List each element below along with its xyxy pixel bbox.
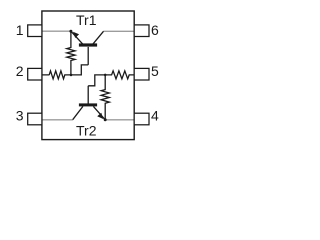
pin 5 box [134,68,149,80]
node A junction dot [69,30,72,33]
svg-text:3: 3 [16,108,24,124]
package outline [42,11,134,140]
transistor Tr1 base lead [87,47,89,65]
svg-text:2: 2 [16,63,24,79]
junction dot R3/R4 [104,74,107,77]
svg-text:Tr2: Tr2 [76,122,97,138]
pin 1 box [28,25,42,37]
wire pin1 to node A [42,30,71,32]
svg-text:5: 5 [151,63,159,79]
pin 6 box [134,25,149,37]
pin 3 box [28,113,42,125]
resistor R4 (node A2 up to mid wire) [101,75,109,120]
wire pin3 to collector Tr2 [42,119,73,121]
transistor Tr2 base lead [87,86,89,104]
transistor Tr2 base bar [79,103,97,106]
svg-text:1: 1 [16,22,24,38]
transistor Tr1 collector [93,31,104,44]
junction dot R1/R2 [70,74,73,77]
resistor R3 (pin5 to base Tr2, with step) [88,71,134,86]
resistor R1 (pin2 to base Tr1, with step) [42,65,88,79]
pin 4 box [134,113,149,125]
transistor Tr1 emitter arrow [73,32,79,38]
transistor Tr2 emitter [93,106,105,119]
resistor R2 (node A down to mid wire) [67,31,75,75]
transistor Tr1 base bar [79,43,97,46]
node A2 junction dot [104,118,107,121]
svg-text:4: 4 [151,108,159,124]
pin 2 box [28,68,42,80]
wire collector Tr1 to pin6 [103,30,134,32]
svg-text:Tr1: Tr1 [76,12,97,28]
transistor Tr1 emitter [71,31,83,44]
wire node A2 to pin4 [105,119,134,121]
svg-text:6: 6 [151,22,159,38]
transistor Tr2 emitter arrow [97,113,103,119]
transistor Tr2 collector [73,106,83,119]
